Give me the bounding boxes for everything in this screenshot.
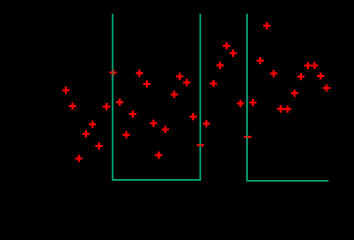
plus S [257, 57, 264, 64]
plus J1 [136, 70, 143, 77]
green line over plus A vertical arm (blend) [112, 69, 114, 76]
plus Q [216, 62, 223, 69]
plus A (on line 1) [109, 72, 116, 74]
green pulse line U2 (under pass) [247, 14, 329, 181]
minus M2 (on line 3) [244, 136, 251, 138]
green pulse line U1 (under pass) [113, 14, 201, 180]
plus H [95, 142, 102, 149]
green line blend over minus M2 crossing [246, 136, 248, 138]
plus P [229, 50, 236, 57]
plus X [317, 72, 324, 79]
plus U [311, 62, 318, 69]
plus F [89, 121, 96, 128]
plus R [263, 22, 270, 29]
plus L [183, 79, 190, 86]
plus N [210, 80, 217, 87]
plus W [297, 73, 304, 80]
plus V [270, 70, 277, 77]
plus AB [277, 105, 284, 112]
plus AN [155, 152, 162, 159]
plus C [69, 102, 76, 109]
plus J2 [143, 80, 150, 87]
plus D [103, 103, 110, 110]
plus AK [123, 131, 130, 138]
plus E [116, 99, 123, 106]
plus I [75, 155, 82, 162]
plus AI [190, 113, 197, 120]
plus AD [237, 100, 244, 107]
plus M [171, 91, 178, 98]
plus AG [150, 120, 157, 127]
plus O [223, 42, 230, 49]
green line blend over minus M1 crossing [199, 144, 201, 146]
plus Y [291, 90, 298, 97]
plus B [62, 87, 69, 94]
plus Z [323, 84, 330, 91]
plus AJ [203, 120, 210, 127]
plus AF [129, 110, 136, 117]
plus K [176, 73, 183, 80]
minus M1 (on line 2) [197, 144, 204, 146]
red plus markers [62, 22, 330, 162]
plus AH [162, 126, 169, 133]
plus T [304, 62, 311, 69]
plus AA [249, 99, 256, 106]
plus AC [284, 106, 291, 113]
plus G [82, 130, 89, 137]
